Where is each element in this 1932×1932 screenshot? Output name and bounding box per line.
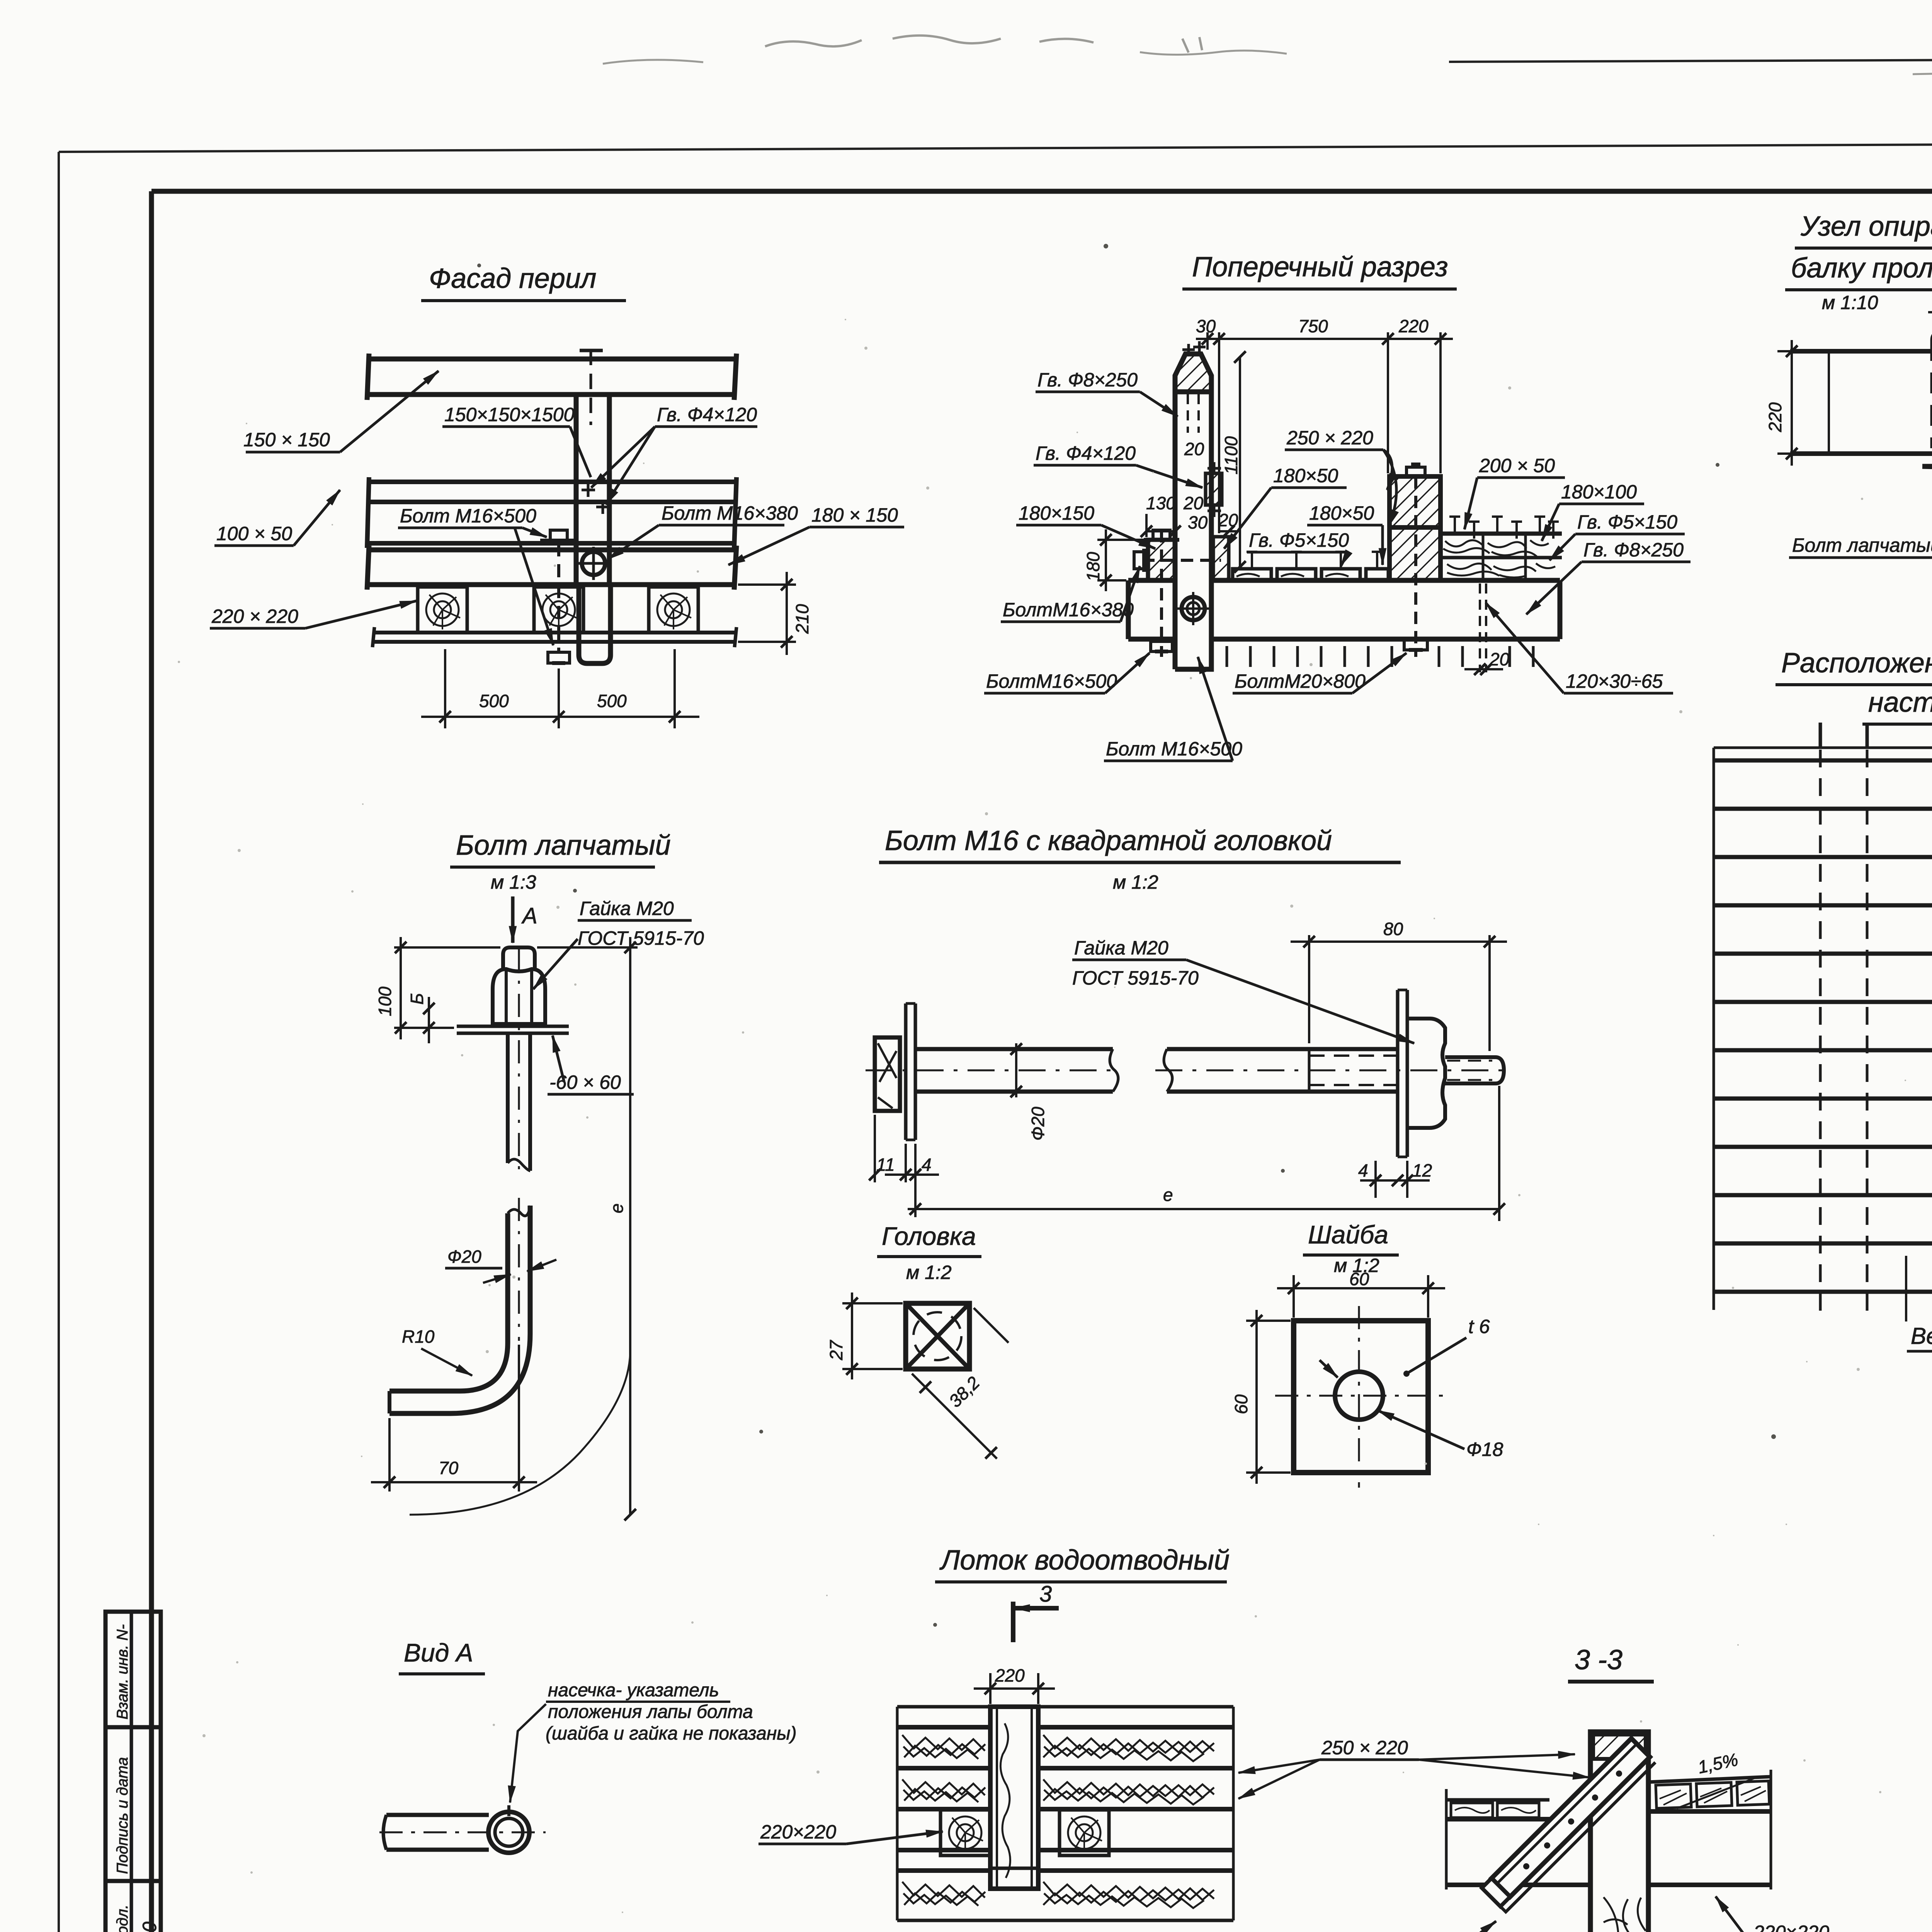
svg-text:t 6: t 6 xyxy=(1468,1316,1490,1337)
svg-text:БолтМ16×380: БолтМ16×380 xyxy=(1003,599,1134,621)
svg-text:210: 210 xyxy=(792,604,812,634)
svg-text:30: 30 xyxy=(1188,512,1208,532)
svg-text:Гв. Ф4×120: Гв. Ф4×120 xyxy=(1036,442,1136,464)
svg-text:Гв. Ф8×250: Гв. Ф8×250 xyxy=(1583,539,1684,561)
svg-text:Шайба: Шайба xyxy=(1308,1220,1388,1249)
svg-text:е: е xyxy=(1163,1185,1173,1205)
post 150x150x1500 xyxy=(576,395,611,663)
bottom dims 11 4 4 12 xyxy=(875,1115,1430,1217)
dim 420 top xyxy=(1928,298,1932,348)
svg-text:4: 4 xyxy=(922,1155,932,1175)
dim 38.2 diagonal xyxy=(912,1374,997,1459)
shank lower with hook xyxy=(389,1198,530,1413)
svg-text:220×220: 220×220 xyxy=(1753,1922,1829,1932)
svg-text:БолтМ16×500: БолтМ16×500 xyxy=(986,670,1117,692)
svg-text:100 × 50: 100 × 50 xyxy=(216,523,292,544)
section mark 3 top xyxy=(1013,1602,1059,1642)
svg-text:Гв. Ф5×150: Гв. Ф5×150 xyxy=(1249,529,1349,551)
svg-text:220: 220 xyxy=(1398,316,1429,336)
main beam band xyxy=(1446,1811,1771,1885)
svg-text:180 × 150: 180 × 150 xyxy=(811,504,898,526)
deck plan with drain channel xyxy=(897,1707,1233,1920)
svg-text:250 × 220: 250 × 220 xyxy=(1321,1737,1408,1759)
svg-text:130: 130 xyxy=(1146,493,1176,513)
svg-text:Поперечный разрез: Поперечный разрез xyxy=(1192,252,1448,282)
svg-text:Головка: Головка xyxy=(882,1222,976,1250)
handrail 150x150 top band xyxy=(367,354,736,400)
svg-text:Гайка М20: Гайка М20 xyxy=(580,898,674,919)
svg-text:е: е xyxy=(607,1203,627,1213)
svg-text:361260: 361260 xyxy=(139,1922,160,1932)
bolt M16x500 left: head above, nut below xyxy=(1144,530,1179,657)
svg-text:200 × 50: 200 × 50 xyxy=(1479,455,1555,476)
wood grain zigzag bands xyxy=(902,1735,1214,1908)
middle rail 100x50 xyxy=(367,477,736,548)
beam (поперечина) band xyxy=(1128,580,1560,639)
panel captions xyxy=(1905,1256,1907,1321)
svg-text:БолтМ20×800: БолтМ20×800 xyxy=(1235,670,1366,692)
left block 180x150 xyxy=(1148,540,1175,580)
dim 60 left xyxy=(1246,1310,1291,1484)
svg-text:Вид А: Вид А xyxy=(404,1638,473,1667)
svg-text:220: 220 xyxy=(1765,402,1785,432)
dim 60 top xyxy=(1277,1275,1445,1318)
svg-text:220 × 220: 220 × 220 xyxy=(211,605,298,627)
svg-text:Болт лапчатый: Болт лапчатый xyxy=(1792,534,1932,556)
svg-text:80: 80 xyxy=(1383,919,1403,939)
plank 180x50 on edge right of post xyxy=(1213,537,1229,580)
dim 220 above channel xyxy=(974,1673,1055,1704)
svg-text:Гв. Ф8×250: Гв. Ф8×250 xyxy=(1037,369,1138,391)
pipe side view with end circle xyxy=(379,1805,546,1853)
dim 220 left xyxy=(1777,340,1839,466)
svg-text:3: 3 xyxy=(1039,1582,1052,1607)
dim 210 right xyxy=(738,572,796,655)
svg-text:Болт М16 с квадратной голо: Болт М16 с квадратной головкой xyxy=(885,825,1332,856)
svg-text:180: 180 xyxy=(1083,552,1103,582)
left deck planks xyxy=(1446,1789,1549,1889)
shank left part xyxy=(866,1049,1121,1092)
svg-text:ГОСТ 5915-70: ГОСТ 5915-70 xyxy=(578,927,704,949)
wheel guard 250x220 stack xyxy=(1389,476,1440,527)
svg-text:750: 750 xyxy=(1298,316,1328,336)
svg-text:500: 500 xyxy=(597,691,627,711)
svg-text:ГОСТ 5915-70: ГОСТ 5915-70 xyxy=(1072,967,1199,989)
svg-text:30: 30 xyxy=(1196,316,1216,336)
railing post (стойка) xyxy=(1175,354,1211,669)
svg-text:Взам. инв. N-: Взам. инв. N- xyxy=(114,1624,131,1719)
svg-text:насечка- указатель: насечка- указатель xyxy=(548,1680,719,1701)
horizontal plank lines xyxy=(897,1705,990,1709)
dim 27 left xyxy=(842,1293,903,1379)
svg-text:Фасад перил: Фасад перил xyxy=(429,263,596,294)
deck blocks 220x220 xyxy=(418,587,467,633)
top dims 30 750 220 xyxy=(1196,332,1453,533)
shank right part with nut and washer xyxy=(1155,990,1507,1157)
bolt M16x500 head circle on post xyxy=(1177,592,1210,625)
svg-text:балку пролетного строения: балку пролетного строения xyxy=(1791,253,1932,284)
svg-text:250 × 220: 250 × 220 xyxy=(1286,427,1373,449)
svg-text:180×50: 180×50 xyxy=(1309,502,1374,524)
dim Б small xyxy=(428,997,430,1043)
220x220 blocks beside channel xyxy=(940,1810,990,1855)
clawed bolt (болт лапчатый) dashed xyxy=(1922,333,1932,468)
svg-text:180×100: 180×100 xyxy=(1561,481,1637,503)
central channel plank xyxy=(990,1707,1038,1889)
dim 500 500 bottom xyxy=(421,649,699,728)
svg-text:20: 20 xyxy=(1218,510,1238,530)
dim 20 gap right xyxy=(1464,583,1503,672)
svg-text:Ф20: Ф20 xyxy=(1028,1107,1048,1141)
svg-text:27: 27 xyxy=(826,1340,846,1361)
dim 100 left xyxy=(394,937,500,1039)
svg-text:Гв. Ф4×120: Гв. Ф4×120 xyxy=(657,404,757,425)
svg-text:20: 20 xyxy=(1183,493,1204,513)
svg-text:150 × 150: 150 × 150 xyxy=(243,429,330,451)
svg-text:120×30÷65: 120×30÷65 xyxy=(1566,670,1663,692)
cross beam member (поперечина) xyxy=(1590,1732,1648,1932)
dim 1100 xyxy=(1239,357,1241,567)
dim 180 left xyxy=(1097,529,1146,591)
svg-text:12: 12 xyxy=(1412,1160,1432,1180)
svg-text:Болт лапчатый: Болт лапчатый xyxy=(456,830,671,861)
svg-text:Болт М16×500: Болт М16×500 xyxy=(400,505,536,527)
svg-text:положения лапы болта: положения лапы болта xyxy=(548,1702,753,1722)
svg-text:60: 60 xyxy=(1231,1394,1251,1414)
svg-text:м 1:2: м 1:2 xyxy=(1113,871,1158,893)
svg-text:настилов дощатой проезжей: настилов дощатой проезжей части xyxy=(1868,687,1932,718)
svg-text:500: 500 xyxy=(479,691,509,711)
svg-text:Верхний защитный: Верхний защитный xyxy=(1911,1323,1932,1349)
washer square with hole xyxy=(1294,1321,1428,1473)
svg-text:1100: 1100 xyxy=(1221,436,1241,474)
svg-text:20: 20 xyxy=(1489,649,1510,669)
bolt M16x500 head on beam xyxy=(540,530,577,663)
svg-text:20: 20 xyxy=(1184,439,1204,459)
svg-text:60: 60 xyxy=(1349,1269,1369,1289)
nail Гв Ф4x120 block on post xyxy=(1206,473,1222,505)
right deck planks (sloped 1.5%) xyxy=(1648,1770,1771,1889)
left stamp column xyxy=(105,1612,161,1932)
dim 70 xyxy=(371,1345,537,1492)
dim e right tall xyxy=(410,937,638,1515)
leader to notch xyxy=(510,1704,546,1803)
view arrow A xyxy=(511,896,515,943)
svg-text:Расположение стыков досок: Расположение стыков досок верхнего и ниж… xyxy=(1781,648,1932,679)
svg-text:Подпись и дата: Подпись и дата xyxy=(114,1757,131,1874)
square head side view xyxy=(875,1003,915,1140)
svg-text:Ф18: Ф18 xyxy=(1466,1439,1503,1460)
crossbeam 180x150 band xyxy=(367,546,736,590)
nails hanging below deck line xyxy=(1227,646,1533,667)
svg-text:А: А xyxy=(521,903,537,929)
nails Гв Ф4x120 marks on post xyxy=(582,483,610,514)
svg-text:Инв. N-подл.: Инв. N-подл. xyxy=(114,1905,131,1932)
bolt M16x380 circle xyxy=(577,547,610,580)
svg-text:(шайба и гайка не показаны): (шайба и гайка не показаны) xyxy=(546,1723,797,1744)
svg-text:180×150: 180×150 xyxy=(1019,502,1094,524)
svg-text:R10: R10 xyxy=(402,1327,435,1347)
svg-text:Болт М16×500: Болт М16×500 xyxy=(1106,738,1242,760)
svg-text:м 1:2: м 1:2 xyxy=(906,1262,952,1283)
shank upper with break xyxy=(508,947,530,1175)
svg-text:70: 70 xyxy=(439,1458,459,1478)
svg-text:220×220: 220×220 xyxy=(760,1821,836,1843)
right roadway deck two layers xyxy=(1440,534,1562,580)
svg-text:м 1:3: м 1:3 xyxy=(491,871,536,893)
svg-text:150×150×1500: 150×150×1500 xyxy=(444,404,575,425)
dim e bottom xyxy=(908,1086,1499,1221)
svg-text:Гайка М20: Гайка М20 xyxy=(1074,937,1168,959)
bottom grain of member xyxy=(1604,1897,1646,1932)
svg-text:-60 × 60: -60 × 60 xyxy=(549,1071,621,1093)
beam (балка) xyxy=(1790,351,1932,456)
svg-text:Узел опирания поперечины на: Узел опирания поперечины на xyxy=(1800,211,1932,242)
bolt M16x380 horizontal through post xyxy=(1134,549,1221,572)
svg-text:Ф20: Ф20 xyxy=(447,1247,481,1267)
svg-text:Лоток водоотводный: Лоток водоотводный xyxy=(939,1545,1230,1576)
washer plate -60x60 xyxy=(457,1026,569,1033)
bolt top: protruding end + hex nut xyxy=(493,947,545,1024)
svg-text:Б: Б xyxy=(407,993,427,1005)
square head with X and inscribed dashed circle xyxy=(906,1303,969,1369)
dim 80 xyxy=(1291,935,1507,1051)
diagonal trough boards (лоток) xyxy=(1482,1738,1655,1912)
upper protective decking panel (Верхний защитный настил) xyxy=(1714,723,1932,1312)
outer edges xyxy=(896,1707,899,1920)
svg-text:180×50: 180×50 xyxy=(1273,465,1338,486)
scan artifacts xyxy=(603,36,1932,74)
post foot below deck xyxy=(579,585,611,663)
svg-text:3 -3: 3 -3 xyxy=(1575,1645,1622,1675)
dim Ф20 rotated xyxy=(1015,1043,1017,1097)
bottom planking xyxy=(372,627,736,647)
slope 1,5% xyxy=(1677,1777,1756,1808)
svg-text:11: 11 xyxy=(876,1155,895,1175)
post centerline above xyxy=(580,350,603,425)
svg-text:100: 100 xyxy=(375,986,395,1016)
svg-text:Гв. Ф5×150: Гв. Ф5×150 xyxy=(1577,511,1677,533)
svg-text:Болт М16×380: Болт М16×380 xyxy=(662,502,798,524)
svg-text:м 1:10: м 1:10 xyxy=(1822,292,1878,313)
svg-text:4: 4 xyxy=(1358,1160,1368,1180)
svg-text:220: 220 xyxy=(995,1665,1025,1685)
deck planks row with nails xyxy=(1233,569,1388,580)
